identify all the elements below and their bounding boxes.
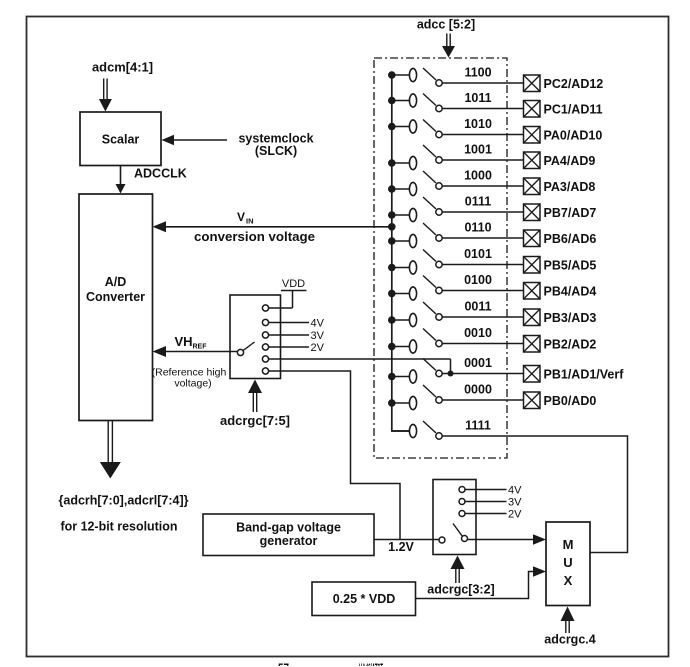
- svg-text:4V: 4V: [311, 318, 325, 330]
- contact SW2 pin 1: [459, 487, 465, 493]
- svg-text:PC2/AD12: PC2/AD12: [544, 77, 604, 91]
- pad PA0/AD10: [524, 127, 541, 144]
- svg-text:for 12-bit resolution: for 12-bit resolution: [61, 520, 178, 534]
- svg-text:0000: 0000: [464, 383, 492, 397]
- svg-text:PA4/AD9: PA4/AD9: [544, 154, 596, 168]
- switch channel 0010: [388, 329, 524, 354]
- wire SW2 4V tap: [465, 489, 506, 491]
- svg-text:Scalar: Scalar: [102, 133, 140, 147]
- wire SW1 pin1 to VDD: [269, 307, 293, 309]
- contact SW1 pin 1: [262, 305, 268, 311]
- pad PA3/AD8: [524, 178, 541, 195]
- svg-text:ADCCLK: ADCCLK: [134, 167, 187, 181]
- switch channel 1010: [388, 120, 524, 138]
- wire adcrgc[3:2] double arrow into SW2: [455, 569, 457, 583]
- svg-text:1011: 1011: [464, 91, 491, 105]
- wire VHREF into A/D Converter: [162, 351, 237, 353]
- pad PB3/AD3: [524, 309, 541, 326]
- pad PC2/AD12: [524, 75, 541, 92]
- svg-text:A/D: A/D: [105, 275, 127, 289]
- switch channel 0111: [388, 197, 524, 222]
- block 0.25 * VDD reference: [312, 582, 416, 616]
- svg-text:3V: 3V: [508, 497, 522, 509]
- pad PB6/AD6: [524, 230, 541, 247]
- svg-text:U: U: [563, 555, 572, 570]
- switch channel 0100: [388, 276, 524, 301]
- wire adcm double arrow into Scalar: [103, 79, 105, 100]
- svg-text:conversion voltage: conversion voltage: [194, 230, 315, 244]
- svg-text:generator: generator: [260, 534, 318, 548]
- svg-text:PA3/AD8: PA3/AD8: [544, 180, 596, 194]
- wire adcrgc[7:5] double arrow into SW1: [252, 393, 254, 412]
- svg-text:IN: IN: [246, 217, 254, 226]
- block selector SW1 (VHREF source): [230, 295, 281, 379]
- svg-text:X: X: [564, 573, 573, 588]
- svg-text:adcm[4:1]: adcm[4:1]: [92, 61, 153, 75]
- svg-text:adcrgc[3:2]: adcrgc[3:2]: [427, 583, 494, 597]
- svg-text:Converter: Converter: [86, 290, 145, 304]
- svg-text:0.25 * VDD: 0.25 * VDD: [333, 592, 396, 606]
- svg-text:0100: 0100: [464, 273, 492, 287]
- block Band-gap voltage generator: [203, 514, 374, 556]
- pad PC1/AD11: [524, 101, 541, 118]
- wire 0.25*VDD into MUX: [416, 572, 537, 599]
- wire ADCCLK Scalar to A/D Converter: [120, 166, 122, 189]
- svg-text:VDD: VDD: [282, 278, 305, 290]
- pad PB1/AD1/Verf: [524, 366, 541, 383]
- svg-text:{adcrh[7:0],adcrl[7:4]}: {adcrh[7:0],adcrl[7:4]}: [59, 494, 189, 508]
- svg-text:adcc [5:2]: adcc [5:2]: [417, 18, 475, 32]
- wire 1.2V band-gap output: [374, 539, 439, 541]
- svg-text:Band-gap voltage: Band-gap voltage: [236, 521, 341, 535]
- switch channel 0000: [388, 385, 524, 410]
- junction VIN on analog bus: [388, 223, 396, 231]
- switch channel 1000: [388, 171, 524, 196]
- wire VIN conversion voltage into A/D Converter: [162, 226, 392, 228]
- switch channel 1001: [388, 145, 524, 170]
- power VDD rail: [281, 290, 307, 292]
- svg-text:0111: 0111: [465, 195, 491, 209]
- wire A/D result output double arrow: [107, 421, 109, 462]
- pad PA4/AD9: [524, 152, 541, 169]
- switch channel 0110: [388, 223, 524, 248]
- svg-text:0110: 0110: [464, 221, 491, 235]
- wire systemclock into Scalar: [170, 139, 227, 141]
- svg-text:voltage): voltage): [174, 378, 211, 390]
- switch channel 1111: [392, 421, 442, 439]
- pad PB7/AD7: [524, 204, 541, 221]
- contact SW2 output pole: [462, 536, 468, 542]
- svg-text:1010: 1010: [464, 117, 492, 131]
- svg-text:PB4/AD4: PB4/AD4: [544, 285, 597, 299]
- switch channel 0101: [388, 250, 524, 275]
- pad PB2/AD2: [524, 336, 541, 353]
- svg-text:4V: 4V: [508, 485, 522, 497]
- wire SW1 4V tap: [269, 322, 309, 324]
- wire analog bus: [392, 75, 410, 432]
- pad PB4/AD4: [524, 283, 541, 300]
- contact SW1 pin 2: [262, 319, 268, 325]
- block analog input multiplexer (dash-dot): [374, 58, 507, 458]
- svg-text:3V: 3V: [311, 330, 325, 342]
- block A/D Converter U1: [79, 194, 153, 421]
- contact SW2 pin 2: [459, 499, 465, 505]
- svg-text:0011: 0011: [464, 300, 491, 314]
- svg-text:2V: 2V: [311, 342, 325, 354]
- svg-text:REF: REF: [193, 344, 208, 351]
- svg-text:PA0/AD10: PA0/AD10: [544, 129, 603, 143]
- contact SW1 pin 5: [262, 356, 268, 362]
- wire SW1 2V tap: [269, 346, 309, 348]
- svg-text:PC1/AD11: PC1/AD11: [544, 103, 603, 117]
- wire SW1 pin6 to 1.2V node: [269, 371, 400, 540]
- wire SW1 3V tap: [269, 334, 309, 336]
- wire adcrgc.4 double arrow into MUX: [565, 621, 567, 633]
- svg-text:V: V: [237, 210, 245, 224]
- svg-text:1100: 1100: [464, 66, 491, 80]
- svg-text:(SLCK): (SLCK): [255, 144, 297, 158]
- wire SW1 pin5 to PB1/AD1/Verf node: [269, 358, 451, 360]
- switch channel 0011: [388, 302, 524, 327]
- svg-text:M: M: [563, 537, 574, 552]
- junction on PB1 wire: [448, 371, 454, 377]
- block MUX U2: [546, 522, 590, 606]
- block selector SW2 (VLREF source): [433, 480, 476, 555]
- svg-text:adcrgc.4: adcrgc.4: [544, 633, 595, 647]
- svg-text:VH: VH: [175, 334, 193, 349]
- caption fragment (clipped page text): [278, 662, 383, 667]
- wire channel 1111 to MUX: [442, 436, 627, 553]
- wire adcc double arrow into multiplexer: [446, 34, 448, 47]
- wire SW2 output into MUX: [468, 539, 536, 541]
- svg-text:adcrgc[7:5]: adcrgc[7:5]: [220, 414, 290, 428]
- svg-text:PB1/AD1/Verf: PB1/AD1/Verf: [544, 368, 625, 382]
- svg-text:1.2V: 1.2V: [388, 540, 414, 554]
- switch arm SW2: [453, 524, 462, 536]
- switch channel 1011: [388, 94, 524, 112]
- svg-text:PB7/AD7: PB7/AD7: [544, 206, 597, 220]
- svg-text:PB6/AD6: PB6/AD6: [544, 232, 597, 246]
- svg-text:0010: 0010: [464, 326, 492, 340]
- wire SW2 2V tap: [465, 513, 506, 515]
- svg-text:PB0/AD0: PB0/AD0: [544, 394, 597, 408]
- contact SW1 pin 6: [262, 368, 268, 374]
- pad PB5/AD5: [524, 257, 541, 274]
- svg-text:1001: 1001: [464, 143, 492, 157]
- svg-text:PB5/AD5: PB5/AD5: [544, 259, 597, 273]
- block Scalar: [80, 112, 161, 166]
- svg-text:0101: 0101: [464, 247, 492, 261]
- contact SW1 pin 4: [262, 344, 268, 350]
- pad PB0/AD0: [524, 392, 541, 409]
- svg-text:PB2/AD2: PB2/AD2: [544, 338, 597, 352]
- svg-text:0001: 0001: [464, 356, 492, 370]
- contact SW2 pin 3: [459, 511, 465, 517]
- svg-text:1111: 1111: [465, 419, 491, 433]
- switch channel 0001: [388, 359, 524, 384]
- contact SW1 common pole: [237, 349, 243, 355]
- contact SW1 pin 3: [262, 332, 268, 338]
- contact SW2 common pole: [439, 537, 445, 543]
- switch arm SW1: [243, 342, 254, 350]
- switch channel 1100: [388, 68, 524, 86]
- wire SW2 3V tap: [465, 501, 506, 503]
- svg-text:2V: 2V: [508, 509, 522, 521]
- svg-text:1000: 1000: [464, 169, 492, 183]
- svg-text:PB3/AD3: PB3/AD3: [544, 311, 597, 325]
